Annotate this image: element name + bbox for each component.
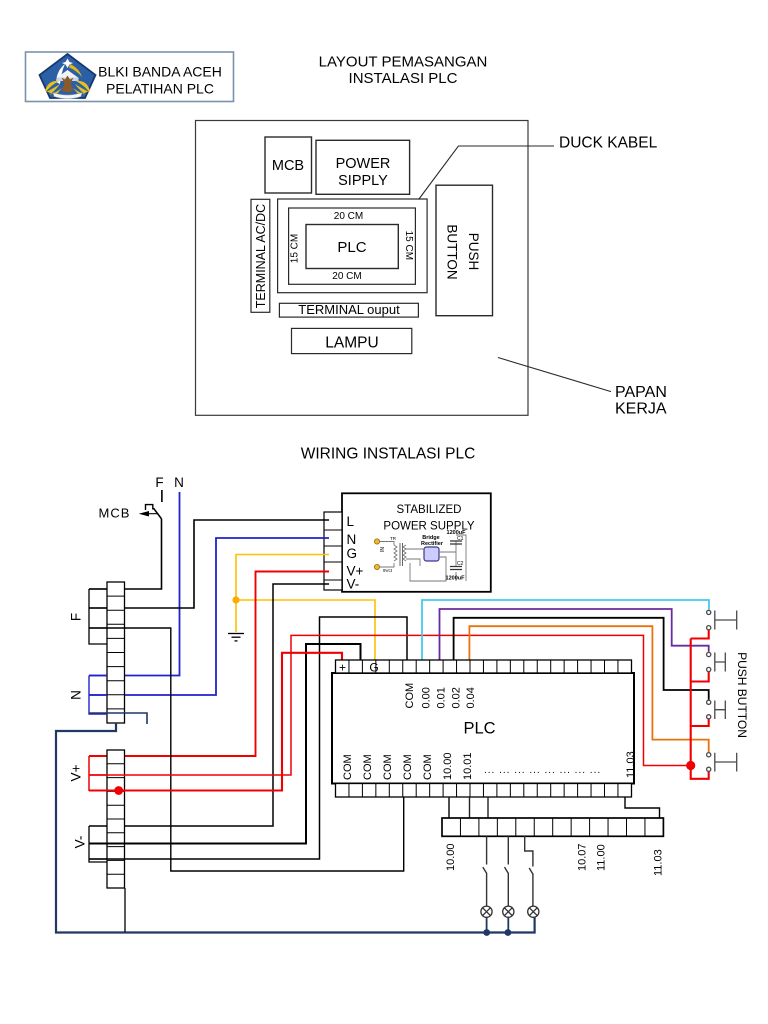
terminal AC/DC box <box>251 199 270 312</box>
lamp feed 2 with switch <box>505 836 509 906</box>
svg-text:COM: COM <box>342 754 354 780</box>
svg-text:G: G <box>347 546 358 561</box>
wire L (psu to terminal F) <box>89 520 329 608</box>
wire V- thick to PLC terminal 2 <box>89 644 361 844</box>
wire V+ red psu to terminal V+ <box>89 572 329 757</box>
svg-text:INSTALASI PLC: INSTALASI PLC <box>349 70 458 87</box>
wire strip to bus <box>124 888 126 932</box>
duct kabel frame outer <box>278 199 428 293</box>
svg-text:V+: V+ <box>69 764 84 781</box>
svg-text:COM: COM <box>362 754 374 780</box>
node navy dot 1 <box>483 929 490 936</box>
svg-text:PLC: PLC <box>337 239 366 256</box>
wire N to terminal N <box>89 492 180 676</box>
duct kabel frame inner <box>289 208 416 284</box>
terminal strip left section 2 <box>107 750 125 888</box>
svg-text:L: L <box>347 514 355 529</box>
output terminal strip <box>442 818 663 836</box>
MCB box (layout) <box>265 137 312 193</box>
svg-text:PELATIHAN PLC: PELATIHAN PLC <box>106 81 214 97</box>
svg-text:15 CM: 15 CM <box>403 231 414 260</box>
wire purple 0.01 to PB2 <box>440 609 709 660</box>
svg-text:V-: V- <box>347 577 360 592</box>
wire navy stub at N group <box>89 713 147 724</box>
lamp L2 return <box>507 917 509 932</box>
wire N (psu to terminal N) <box>89 538 329 695</box>
psu capacitor C1 <box>447 530 467 544</box>
wire red branch PB3 <box>691 719 709 726</box>
lamp L2 <box>503 906 514 917</box>
terminal strip left section 1 <box>107 582 125 723</box>
lamp L1 return <box>486 917 488 932</box>
psu capacitor C2 <box>446 561 466 582</box>
wire navy lamp return bus <box>56 723 535 933</box>
svg-text:0.01: 0.01 <box>436 687 448 708</box>
wire F drop to MCB <box>161 490 163 502</box>
lamp feed 1 with switch <box>483 836 487 906</box>
jumper comb group V+ <box>89 756 107 791</box>
svg-text:COM: COM <box>402 754 414 780</box>
svg-text:9Vct: 9Vct <box>383 568 393 573</box>
psu transformer tiny labels <box>383 536 397 573</box>
svg-text:10.07: 10.07 <box>577 843 589 871</box>
svg-text:0.00: 0.00 <box>421 687 433 708</box>
jumper comb group N <box>89 676 107 715</box>
wire orange 0.04 to PB4 <box>469 626 708 752</box>
psu inner circuit: input terminals <box>374 539 386 570</box>
wire PLC 10.02 to strip <box>487 797 489 818</box>
power supply box <box>342 493 491 592</box>
svg-text:0.02: 0.02 <box>451 687 463 708</box>
svg-text:WIRING INSTALASI PLC: WIRING INSTALASI PLC <box>301 446 476 463</box>
wire PLC 10.01 to strip <box>469 797 471 818</box>
terminal ouput box <box>279 302 418 317</box>
lamp feed 3 with switch <box>525 836 534 906</box>
wire PLC 10.00 to strip <box>448 797 450 818</box>
jumper comb group F <box>89 589 107 644</box>
svg-text:SIPPLY: SIPPLY <box>338 173 388 189</box>
svg-text:LAYOUT PEMASANGAN: LAYOUT PEMASANGAN <box>319 54 488 71</box>
wire cyan 0.00 to PB1 <box>422 600 709 660</box>
svg-text:TERMINAL AC/DC: TERMINAL AC/DC <box>254 204 268 308</box>
wire red branch PB1 <box>691 630 709 639</box>
svg-text:10.00: 10.00 <box>445 843 457 871</box>
svg-text:C1: C1 <box>457 536 464 542</box>
psu inner circuit: bridge rectifier BR1 <box>421 535 444 561</box>
power supply terminal column <box>324 512 342 590</box>
svg-text:COM: COM <box>404 683 416 709</box>
push button PB1 <box>707 610 737 630</box>
PLC box <box>332 673 634 784</box>
svg-text:MCB: MCB <box>99 506 131 521</box>
svg-text:10.01: 10.01 <box>462 752 474 780</box>
duck kabel pointer <box>419 146 554 200</box>
wire F from MCB to terminal F <box>89 519 162 589</box>
wire red push button trunk <box>691 639 709 779</box>
svg-text:IN: IN <box>380 547 386 552</box>
logo box BLKI <box>26 52 234 102</box>
push button PB3 <box>707 700 726 719</box>
svg-text:PAPAN: PAPAN <box>615 384 667 401</box>
wire G yellow psu to ground and PLC G <box>236 555 329 633</box>
svg-text:POWER: POWER <box>336 156 391 172</box>
wire G branch to PLC <box>236 600 375 660</box>
svg-text:20 CM: 20 CM <box>334 211 363 222</box>
svg-text:PUSH BUTTON: PUSH BUTTON <box>735 652 749 738</box>
PLC bottom terminal row <box>336 784 632 798</box>
power supply box (layout) <box>316 140 410 194</box>
node navy dot 2 <box>505 929 512 936</box>
svg-text:Rectifier: Rectifier <box>421 541 444 547</box>
svg-text:BLKI BANDA ACEH: BLKI BANDA ACEH <box>98 64 222 80</box>
papan kerja outer box <box>196 121 529 416</box>
wire V- to PLC COM top <box>89 617 407 859</box>
svg-text:11.03: 11.03 <box>625 751 637 778</box>
papan kerja label <box>615 384 667 418</box>
svg-text:1200uF: 1200uF <box>446 576 466 582</box>
wire F to PLC COM bottom <box>89 628 404 871</box>
svg-text:11.00: 11.00 <box>596 844 608 871</box>
push button PB2 <box>707 652 726 671</box>
svg-text:BUTTON: BUTTON <box>445 224 460 279</box>
wire red A V+ to push button common <box>89 635 688 775</box>
svg-text:V-: V- <box>73 836 88 849</box>
wire red B V+ to PLC plus <box>89 653 342 791</box>
wire red branch PB2 <box>691 672 709 682</box>
svg-text:C2: C2 <box>457 561 464 567</box>
logo text <box>98 64 222 97</box>
svg-text:G: G <box>369 661 378 675</box>
wire PLC 11.03 to strip <box>625 797 660 818</box>
svg-text:DUCK KABEL: DUCK KABEL <box>559 135 658 152</box>
lamp L3 <box>528 906 539 917</box>
svg-text:N: N <box>174 475 184 490</box>
push button PB4 <box>707 753 737 772</box>
psu inner circuit: wires <box>406 535 466 581</box>
PLC box (layout) <box>306 225 398 269</box>
svg-text:PLC: PLC <box>463 720 495 738</box>
papan kerja pointer <box>498 358 611 392</box>
svg-text:COM: COM <box>422 754 434 780</box>
lampu box <box>292 328 412 353</box>
svg-text:15 CM: 15 CM <box>290 234 301 263</box>
svg-text:+: + <box>339 661 346 675</box>
wire black 0.02 to PB3 <box>454 618 709 700</box>
psu inner circuit: transformer T1 <box>379 542 406 568</box>
svg-text:11.03: 11.03 <box>653 849 665 876</box>
svg-text:F: F <box>69 613 84 621</box>
svg-text:MCB: MCB <box>272 158 304 174</box>
title layout <box>319 54 488 88</box>
svg-text:0.04: 0.04 <box>465 687 477 708</box>
jumper comb group V- <box>89 826 107 862</box>
MCB breaker Q0 <box>139 505 162 519</box>
node red dot push button <box>686 761 695 770</box>
svg-text:TERMINAL ouput: TERMINAL ouput <box>298 302 400 317</box>
svg-text:F: F <box>155 475 163 490</box>
svg-text:TR: TR <box>390 536 397 541</box>
svg-text:KERJA: KERJA <box>615 401 667 418</box>
logo emblem Kemnaker pentagon <box>40 54 96 99</box>
ground symbol <box>228 634 244 641</box>
wire V- black psu to terminal V- <box>89 584 329 826</box>
svg-text:N: N <box>69 690 84 700</box>
lamp L1 <box>481 906 492 917</box>
svg-text:STABILIZED: STABILIZED <box>397 504 462 516</box>
svg-text:PUSH: PUSH <box>466 233 481 271</box>
svg-text:COM: COM <box>382 754 394 780</box>
svg-text:20 CM: 20 CM <box>332 271 361 282</box>
svg-text:N: N <box>347 532 357 547</box>
svg-text:10.00: 10.00 <box>442 752 454 780</box>
push button box (layout) <box>436 185 493 316</box>
svg-text:... ... ... ... ... ... ... ..: ... ... ... ... ... ... ... ... <box>484 765 601 776</box>
PLC top terminal row <box>336 660 632 673</box>
node G junction dot <box>232 596 239 603</box>
node red junction dot V+ <box>114 786 123 795</box>
svg-text:LAMPU: LAMPU <box>325 335 378 352</box>
